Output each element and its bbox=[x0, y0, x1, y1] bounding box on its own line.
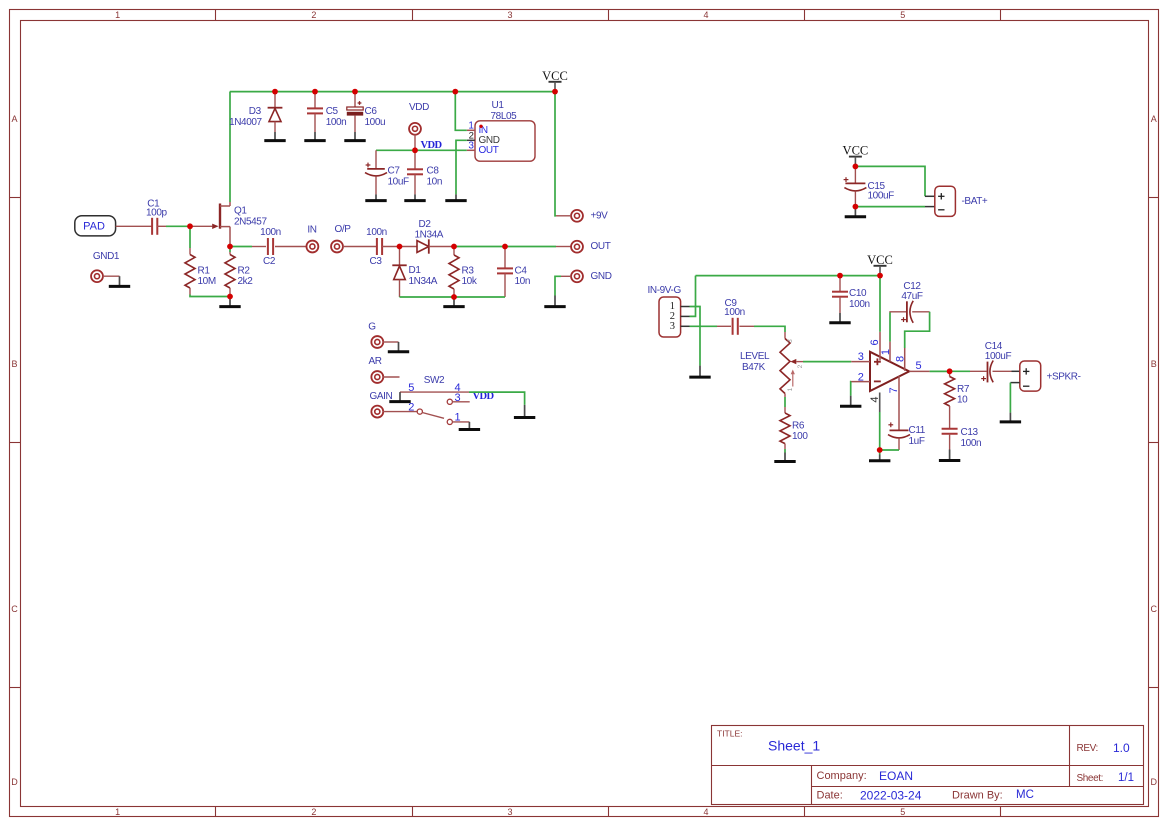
pin 3 OUT bbox=[467, 149, 475, 151]
op-amp U2 triangle bbox=[870, 352, 909, 391]
svg-text:2k2: 2k2 bbox=[238, 276, 254, 287]
node rail U1 bbox=[452, 89, 458, 95]
wire U1 pin2 to ground bbox=[456, 140, 467, 194]
wire R6 to ground bbox=[784, 449, 786, 453]
wire C12 to pin8 bbox=[912, 311, 929, 313]
svg-text:3: 3 bbox=[787, 339, 794, 343]
svg-text:A: A bbox=[11, 114, 17, 124]
svg-text:3: 3 bbox=[858, 351, 864, 363]
wire pin3 to C9 bbox=[690, 325, 718, 327]
capacitor C7 10uF polarized bbox=[375, 150, 377, 168]
svg-text:O/P: O/P bbox=[334, 224, 351, 235]
ground detector bbox=[453, 297, 455, 306]
wire C15 to BAT- bbox=[855, 206, 925, 208]
svg-text:2N5457: 2N5457 bbox=[234, 217, 267, 228]
svg-text:4: 4 bbox=[703, 807, 708, 817]
switch pin 1 bbox=[447, 419, 452, 424]
svg-text:OUT: OUT bbox=[479, 145, 499, 156]
svg-text:3: 3 bbox=[507, 10, 512, 20]
svg-text:100n: 100n bbox=[724, 307, 745, 318]
node amp ground bbox=[877, 447, 883, 453]
svg-text:OUT: OUT bbox=[591, 241, 611, 252]
port +9V bbox=[571, 210, 583, 222]
svg-text:2: 2 bbox=[408, 402, 414, 414]
svg-text:+SPKR-: +SPKR- bbox=[1047, 371, 1081, 382]
svg-text:2: 2 bbox=[858, 371, 864, 383]
svg-text:7: 7 bbox=[888, 387, 900, 393]
svg-text:SW2: SW2 bbox=[424, 375, 445, 386]
svg-text:100n: 100n bbox=[260, 227, 281, 238]
wire O/P to C3 bbox=[343, 246, 377, 248]
svg-text:R2: R2 bbox=[238, 266, 251, 277]
svg-text:-BAT+: -BAT+ bbox=[962, 196, 988, 207]
svg-text:5: 5 bbox=[900, 10, 905, 20]
svg-text:Sheet_1: Sheet_1 bbox=[768, 738, 820, 754]
svg-text:3: 3 bbox=[670, 321, 675, 332]
pin 8 op-amp bbox=[904, 348, 906, 371]
node rail VCC bbox=[552, 89, 558, 95]
capacitor C11 1uF polarized bbox=[888, 424, 893, 426]
svg-text:2: 2 bbox=[311, 807, 316, 817]
svg-text:2: 2 bbox=[797, 364, 804, 368]
diode D2 1N34A bbox=[400, 246, 418, 248]
svg-text:C2: C2 bbox=[263, 256, 276, 267]
capacitor C6 100u polarized bbox=[354, 92, 356, 107]
ground R6 bbox=[784, 453, 786, 461]
svg-text:A: A bbox=[1151, 114, 1157, 124]
svg-text:C6: C6 bbox=[365, 106, 378, 117]
svg-text:D1: D1 bbox=[409, 265, 422, 276]
wire source to R1 top bbox=[189, 226, 191, 248]
wire PAD to C1 bbox=[116, 225, 152, 227]
connector SPKR bbox=[1020, 361, 1041, 391]
wire pin1 to ground bbox=[690, 307, 701, 366]
node output node bbox=[947, 368, 953, 374]
ground C15 bbox=[854, 207, 856, 216]
wire C1 to gate node bbox=[166, 225, 190, 227]
svg-text:PAD: PAD bbox=[83, 220, 105, 232]
diode D3 1N4007 bbox=[274, 92, 276, 107]
ground U1 pin2 bbox=[455, 194, 457, 199]
regulator U1 78L05 bbox=[475, 121, 535, 161]
switch pin 2 bbox=[417, 409, 422, 414]
op-amp plus minus bbox=[874, 361, 881, 363]
wire C9 to LEVEL pot bbox=[754, 326, 785, 332]
ground C5 bbox=[314, 132, 316, 140]
wire VDD net bbox=[376, 149, 467, 151]
svg-text:1uF: 1uF bbox=[909, 436, 925, 447]
svg-text:C: C bbox=[1151, 604, 1158, 614]
svg-text:3: 3 bbox=[468, 141, 474, 152]
svg-text:Date:: Date: bbox=[817, 790, 843, 802]
svg-text:G: G bbox=[368, 322, 376, 333]
wire pin2 to VCC rail bbox=[690, 276, 696, 317]
node C4 top bbox=[502, 244, 508, 250]
port PAD bbox=[75, 216, 116, 236]
svg-text:GND: GND bbox=[591, 271, 612, 282]
svg-text:D3: D3 bbox=[249, 106, 262, 117]
svg-text:VDD: VDD bbox=[421, 140, 443, 151]
resistor R2 2k2 bbox=[229, 247, 231, 253]
svg-text:6: 6 bbox=[869, 339, 881, 345]
ground switch pin1 bbox=[468, 422, 470, 429]
svg-text:10k: 10k bbox=[462, 276, 478, 287]
node detector ground bbox=[451, 294, 457, 300]
svg-text:D: D bbox=[11, 777, 18, 787]
svg-text:2022-03-24: 2022-03-24 bbox=[860, 789, 922, 803]
pot wiper arrow bbox=[790, 359, 796, 364]
svg-text:U1: U1 bbox=[492, 100, 505, 111]
svg-text:GAIN: GAIN bbox=[369, 391, 392, 402]
svg-text:C10: C10 bbox=[849, 288, 867, 299]
svg-text:1.0: 1.0 bbox=[1113, 741, 1130, 755]
wire C14 to SPKR bbox=[993, 370, 1012, 372]
capacitor C3 100n bbox=[376, 238, 378, 255]
svg-text:1N4007: 1N4007 bbox=[229, 117, 262, 128]
svg-text:LEVEL: LEVEL bbox=[740, 351, 770, 362]
node VDD net bbox=[412, 147, 418, 153]
svg-text:C: C bbox=[11, 604, 18, 614]
svg-text:D: D bbox=[1151, 777, 1158, 787]
wire drain up to rail bbox=[229, 92, 231, 202]
wire D2 node to OUT bbox=[454, 246, 556, 248]
svg-text:VCC: VCC bbox=[867, 253, 893, 267]
node rail VCC amp bbox=[877, 273, 883, 279]
ground C6 bbox=[354, 132, 356, 140]
svg-text:5: 5 bbox=[915, 360, 921, 372]
node rail C6 bbox=[352, 89, 358, 95]
ground switch pin5 bbox=[399, 392, 401, 401]
node VCC bat bbox=[853, 164, 859, 170]
wire wiper to op-amp pin3 bbox=[803, 361, 851, 363]
node gate junction bbox=[187, 223, 193, 229]
svg-text:C4: C4 bbox=[515, 266, 528, 277]
capacitor C14 100uF polarized bbox=[987, 362, 989, 383]
svg-text:B: B bbox=[11, 359, 17, 369]
connector BAT bbox=[925, 195, 935, 197]
svg-text:R6: R6 bbox=[792, 421, 805, 432]
svg-text:3: 3 bbox=[507, 807, 512, 817]
svg-text:1N34A: 1N34A bbox=[409, 276, 438, 287]
svg-text:VCC: VCC bbox=[542, 69, 568, 83]
node rail D3 bbox=[272, 89, 278, 95]
svg-text:IN-9V-G: IN-9V-G bbox=[648, 285, 682, 296]
svg-text:C13: C13 bbox=[961, 427, 979, 438]
diode D1 1N34A bbox=[399, 247, 401, 265]
ground op-amp bbox=[879, 450, 881, 455]
svg-text:R3: R3 bbox=[462, 266, 475, 277]
svg-text:C3: C3 bbox=[370, 256, 383, 267]
resistor R3 10k bbox=[453, 247, 455, 256]
wire VDD port down bbox=[414, 134, 416, 150]
ground C13 bbox=[949, 450, 951, 460]
svg-text:GND1: GND1 bbox=[93, 251, 120, 262]
port GND bbox=[571, 270, 583, 282]
switch common bar pins 5-4 bbox=[400, 391, 469, 393]
svg-text:AR: AR bbox=[368, 356, 381, 367]
svg-text:1/1: 1/1 bbox=[1118, 772, 1134, 784]
ground switch pin4 bbox=[524, 405, 526, 417]
capacitor C1 bbox=[151, 218, 153, 235]
wire C11 to ground node bbox=[880, 449, 899, 451]
svg-text:C5: C5 bbox=[326, 106, 339, 117]
capacitor C15 100uF polarized bbox=[854, 166, 856, 182]
svg-text:100n: 100n bbox=[326, 117, 347, 128]
svg-text:10M: 10M bbox=[198, 276, 216, 287]
pin 1 op-amp bbox=[889, 342, 891, 362]
svg-text:IN: IN bbox=[307, 224, 316, 235]
ground GND port bbox=[554, 296, 556, 306]
wire +9V to VCC rail bbox=[556, 215, 571, 217]
resistor R7 10 bbox=[949, 371, 951, 376]
svg-text:Company:: Company: bbox=[817, 770, 867, 782]
pin 5 op-amp output bbox=[909, 370, 929, 372]
svg-text:TITLE:: TITLE: bbox=[717, 729, 743, 739]
svg-text:VDD: VDD bbox=[409, 102, 429, 113]
svg-text:100: 100 bbox=[792, 431, 808, 442]
ground SPKR bbox=[1009, 413, 1011, 421]
svg-text:1: 1 bbox=[787, 387, 794, 391]
ground GND1 bbox=[119, 276, 121, 285]
svg-text:1N34A: 1N34A bbox=[415, 230, 444, 241]
capacitor C9 100n bbox=[732, 318, 734, 335]
pin 3 op-amp bbox=[851, 361, 870, 363]
pot adjust arrow bbox=[792, 373, 794, 387]
node R2 bottom bbox=[227, 294, 233, 300]
svg-text:EOAN: EOAN bbox=[879, 769, 913, 783]
wire VCC to BAT+ bbox=[855, 166, 925, 196]
switch pin 3 bbox=[447, 399, 452, 404]
port OUT bbox=[571, 241, 583, 253]
svg-text:78L05: 78L05 bbox=[491, 111, 518, 122]
node rail C5 bbox=[312, 89, 318, 95]
title block bbox=[712, 726, 1144, 805]
capacitor C8 10n bbox=[414, 150, 416, 169]
wire output bbox=[930, 370, 950, 372]
node C3-D1-D2 bbox=[397, 244, 403, 250]
pin 4 op-amp bbox=[879, 393, 881, 413]
svg-text:100uF: 100uF bbox=[985, 351, 1012, 362]
wire pin2 to ground bbox=[850, 382, 852, 396]
capacitor C2 100n bbox=[267, 238, 269, 255]
capacitor C10 100n bbox=[839, 276, 841, 292]
wire rail to U1 pin1 bbox=[455, 92, 467, 131]
capacitor C13 100n bbox=[942, 428, 958, 430]
svg-text:Q1: Q1 bbox=[234, 206, 247, 217]
svg-text:100n: 100n bbox=[961, 438, 982, 449]
wire R1 bottom to R2 bottom bbox=[190, 295, 230, 297]
svg-text:4: 4 bbox=[703, 10, 708, 20]
wire pot bottom to R6 bbox=[784, 397, 786, 407]
svg-text:100n: 100n bbox=[366, 227, 387, 238]
wire pin4 down bbox=[879, 412, 881, 450]
svg-text:1: 1 bbox=[115, 10, 120, 20]
wire source to C2 bbox=[230, 246, 252, 248]
node source junction bbox=[227, 244, 233, 250]
resistor R1 10M bbox=[189, 248, 191, 255]
wire SPKR- to ground bbox=[1010, 382, 1019, 384]
ground C8 bbox=[414, 194, 416, 199]
svg-text:1: 1 bbox=[115, 807, 120, 817]
ground R2 bbox=[229, 297, 231, 306]
pin 2 op-amp bbox=[851, 381, 870, 383]
svg-text:C7: C7 bbox=[388, 166, 401, 177]
svg-text:Drawn By:: Drawn By: bbox=[952, 790, 1003, 802]
wire C2 to IN port bbox=[275, 246, 307, 248]
wire pin4 to ground bbox=[469, 392, 525, 405]
ground D3 bbox=[274, 132, 276, 140]
svg-text:1: 1 bbox=[880, 349, 892, 355]
wire gate bbox=[190, 225, 212, 227]
wire VCC top rail bbox=[230, 91, 555, 93]
ground G port bbox=[398, 342, 400, 351]
ground C7 bbox=[375, 194, 377, 199]
svg-text:4: 4 bbox=[869, 396, 881, 402]
node rail C10 bbox=[837, 273, 843, 279]
svg-text:100n: 100n bbox=[849, 299, 870, 310]
svg-text:2: 2 bbox=[311, 10, 316, 20]
svg-text:MC: MC bbox=[1016, 789, 1034, 801]
capacitor C12 47uF polarized bbox=[906, 301, 908, 322]
svg-text:+9V: +9V bbox=[591, 210, 609, 221]
svg-text:B: B bbox=[1151, 359, 1157, 369]
pin 1 IN bbox=[467, 129, 475, 131]
svg-text:47uF: 47uF bbox=[901, 291, 922, 302]
wire detector bottom rail bbox=[400, 296, 506, 298]
wire GND port to ground bbox=[561, 275, 571, 277]
ground connector pin1 bbox=[699, 366, 701, 377]
ground op-amp pin2 bbox=[850, 396, 852, 406]
switch arm bbox=[422, 413, 444, 419]
node D2-R3 bbox=[451, 244, 457, 250]
svg-text:C11: C11 bbox=[909, 425, 926, 436]
svg-text:10n: 10n bbox=[515, 276, 531, 287]
svg-text:R1: R1 bbox=[198, 266, 211, 277]
ground C10 bbox=[839, 313, 841, 322]
svg-text:10uF: 10uF bbox=[388, 177, 409, 188]
svg-text:B47K: B47K bbox=[742, 362, 766, 373]
svg-text:5: 5 bbox=[900, 807, 905, 817]
svg-text:VCC: VCC bbox=[843, 144, 869, 158]
node C15 bottom bbox=[853, 204, 859, 210]
wire pin1 to C12 bbox=[890, 311, 907, 314]
pin 2 GND bbox=[467, 139, 475, 141]
svg-text:10n: 10n bbox=[427, 177, 443, 188]
capacitor C5 100n bbox=[314, 92, 316, 109]
svg-text:D2: D2 bbox=[419, 219, 432, 230]
wire amp VCC rail bbox=[696, 275, 881, 277]
wire output to C14 bbox=[950, 370, 970, 372]
svg-text:100uF: 100uF bbox=[868, 191, 895, 202]
resistor R6 100 bbox=[784, 407, 786, 413]
svg-text:C8: C8 bbox=[427, 166, 440, 177]
svg-text:8: 8 bbox=[895, 356, 907, 362]
svg-text:100u: 100u bbox=[365, 117, 386, 128]
transistor Q1 2N5457 bbox=[219, 204, 221, 229]
pin 7 op-amp bbox=[898, 376, 900, 430]
svg-text:10: 10 bbox=[957, 394, 968, 405]
pin 6 op-amp VCC bbox=[879, 332, 881, 361]
svg-text:100p: 100p bbox=[146, 207, 167, 218]
capacitor C4 10n bbox=[504, 247, 506, 269]
svg-text:REV:: REV: bbox=[1077, 743, 1098, 754]
potentiometer LEVEL B47K bbox=[784, 332, 786, 339]
svg-text:Sheet:: Sheet: bbox=[1077, 773, 1104, 784]
